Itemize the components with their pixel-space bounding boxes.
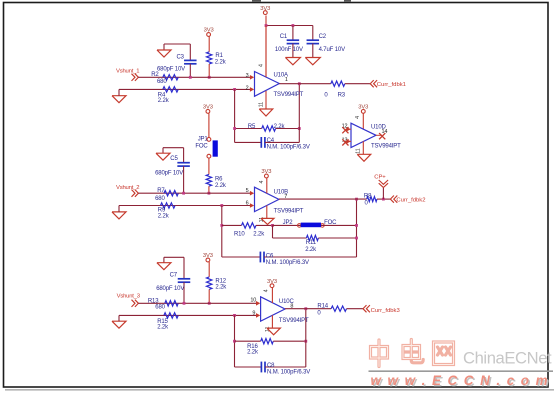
no connect pin 13 <box>342 139 351 145</box>
svg-text:Vshunt_3: Vshunt_3 <box>117 294 141 300</box>
wire pin2 net <box>119 88 251 90</box>
ground above C5 <box>156 153 170 160</box>
svg-text:R5: R5 <box>248 124 256 130</box>
power 3V3 U10C <box>263 279 277 303</box>
svg-text:3: 3 <box>246 73 249 79</box>
wire feedback left stage3 <box>234 315 236 367</box>
wire JP1 to R6 <box>208 158 210 174</box>
ground under C1 <box>285 58 300 65</box>
svg-text:R6: R6 <box>215 177 223 183</box>
svg-text:2: 2 <box>246 85 249 91</box>
net CP+ <box>374 175 388 200</box>
junction C7 / pin10 net <box>183 302 186 305</box>
resistor R5 2.2k feedback <box>235 124 300 131</box>
svg-text:Curr_fdbk1: Curr_fdbk1 <box>377 82 406 88</box>
op-amp U10D <box>342 123 402 149</box>
resistor R10 2.2k <box>222 223 273 238</box>
svg-text:R11: R11 <box>306 240 317 246</box>
ground stage2 inverting <box>112 206 126 219</box>
svg-text:2.2k: 2.2k <box>157 325 169 331</box>
svg-text:C5: C5 <box>170 156 178 162</box>
junction feedback tap pin9 <box>233 314 236 317</box>
svg-text:TSV994IPT: TSV994IPT <box>274 208 304 214</box>
ground under U10B <box>261 218 274 224</box>
svg-text:R2: R2 <box>151 72 159 78</box>
capacitor C4 N.M. 100pF <box>235 137 310 151</box>
watermark ChinaECNet <box>463 349 552 368</box>
svg-text:4: 4 <box>263 289 269 292</box>
resistor R7 680 <box>155 188 178 202</box>
wire R11 drop <box>272 225 274 238</box>
resistor R9 2.2k <box>158 203 175 220</box>
svg-text:N.M. 100pF/6.3V: N.M. 100pF/6.3V <box>267 145 310 151</box>
svg-text:Vshunt_1: Vshunt_1 <box>116 68 139 74</box>
power 3V3 top rail <box>260 6 313 77</box>
svg-text:1: 1 <box>285 77 288 83</box>
wire to port Curr_fdbk1 <box>345 83 370 85</box>
resistor R13 680 <box>148 299 178 311</box>
svg-text:0: 0 <box>324 93 328 99</box>
junction C5 / pin5 net <box>182 192 185 195</box>
power 3V3 JP1 <box>203 105 213 138</box>
ground stage3 inverting <box>112 315 126 328</box>
junction R10 branch <box>220 224 223 227</box>
svg-text:2.2k: 2.2k <box>215 285 227 291</box>
op-amp U10B <box>246 187 304 214</box>
watermark character wang <box>434 342 454 365</box>
svg-text:JP1: JP1 <box>198 137 209 143</box>
svg-text:N.M. 100pF/6.3V: N.M. 100pF/6.3V <box>266 260 309 266</box>
ground above C7 <box>157 263 171 270</box>
jumper JP2 FOC <box>273 220 357 227</box>
wire feedback left stage2 <box>221 206 223 258</box>
svg-text:0: 0 <box>317 311 321 317</box>
capacitor C2 <box>307 26 346 58</box>
junction output stage2 <box>355 198 358 201</box>
svg-text:C8: C8 <box>267 363 275 369</box>
resistor R3 0 ohm <box>324 81 345 99</box>
svg-text:4: 4 <box>355 116 361 119</box>
svg-text:FOC: FOC <box>324 220 337 226</box>
wire feedback right stage1 <box>298 84 300 143</box>
ground under U10C <box>267 328 281 335</box>
svg-text:2.2k: 2.2k <box>253 231 265 237</box>
svg-text:Curr_fdbk3: Curr_fdbk3 <box>371 308 401 314</box>
svg-text:11: 11 <box>356 148 362 154</box>
capacitor C6 N.M. 100pF <box>222 252 357 266</box>
resistor R15 2.2k <box>157 313 178 331</box>
pin 4 U10D <box>355 116 361 119</box>
svg-text:680: 680 <box>155 305 165 311</box>
resistor R11 2.2k <box>273 235 357 253</box>
svg-text:R10: R10 <box>234 231 245 237</box>
svg-text:R1: R1 <box>215 53 223 59</box>
watermark www.ECCN.com <box>371 373 551 390</box>
pin 11 U10B <box>259 205 267 222</box>
junction JP2 right <box>355 224 358 227</box>
svg-text:5: 5 <box>246 188 249 194</box>
svg-text:CP+: CP+ <box>374 175 386 181</box>
svg-text:w w w . E C C N . c o m: w w w . E C C N . c o m <box>371 373 549 388</box>
wire feedback right stage2 <box>356 199 358 257</box>
op-amp U10A <box>246 72 304 99</box>
svg-text:R14: R14 <box>317 304 328 310</box>
svg-text:680pF 10V: 680pF 10V <box>157 67 185 73</box>
svg-text:C7: C7 <box>170 272 178 278</box>
no connect pin 12 <box>342 127 351 133</box>
resistor R4 2.2k <box>158 87 178 104</box>
no connect pin 14 <box>376 133 385 139</box>
junction R1 / pin3 net <box>208 76 211 79</box>
svg-text:R8: R8 <box>364 194 372 200</box>
port Curr_fdbk1 <box>370 80 406 88</box>
svg-text:2.2k: 2.2k <box>247 350 259 356</box>
svg-text:N.M. 100pF/6.3V: N.M. 100pF/6.3V <box>267 370 310 376</box>
port Curr_fdbk3 <box>363 305 400 314</box>
svg-text:680: 680 <box>157 79 167 85</box>
svg-text:R7: R7 <box>157 188 165 194</box>
pin 4 U10A <box>258 26 266 78</box>
wire pin10 net <box>138 302 256 304</box>
port Curr_fdbk2 <box>390 196 425 204</box>
capacitor C3 680pF <box>157 44 197 77</box>
resistor R12 2.2k <box>207 277 228 303</box>
top edge cut text marks <box>252 0 351 2</box>
ground under C2 <box>305 58 320 65</box>
junction C3 / pin3 net <box>189 76 192 79</box>
svg-text:680pF 10V: 680pF 10V <box>155 170 183 176</box>
wire pin3 net <box>138 76 250 78</box>
wire pin9 net <box>119 314 257 316</box>
resistor R16 2.2k <box>235 339 306 356</box>
svg-text:2.2k: 2.2k <box>158 98 170 104</box>
wire output stage2 <box>279 198 367 200</box>
svg-text:4.7uF 10V: 4.7uF 10V <box>319 47 345 53</box>
junction R11 drop <box>271 224 274 227</box>
capacitor C5 680pF <box>155 148 190 194</box>
svg-text:JP2: JP2 <box>283 220 294 226</box>
power 3V3 R12 <box>203 253 213 277</box>
svg-text:2.2k: 2.2k <box>305 247 317 253</box>
capacitor C7 680pF <box>156 257 190 303</box>
resistor R1 2.2k <box>207 52 227 78</box>
svg-text:2.2k: 2.2k <box>215 183 227 189</box>
svg-text:FOC: FOC <box>195 143 208 149</box>
junction left rail <box>265 24 268 27</box>
svg-text:C2: C2 <box>319 34 327 40</box>
power 3V3 R1 <box>204 28 214 52</box>
svg-text:680: 680 <box>155 196 165 202</box>
pin 11 U10C <box>265 315 273 332</box>
junction R12 / pin10 net <box>208 302 211 305</box>
svg-text:TSV994IPT: TSV994IPT <box>371 143 401 149</box>
port Vshunt_3 <box>117 294 141 307</box>
svg-text:R3: R3 <box>338 93 346 99</box>
junction output stage1 <box>298 82 301 85</box>
pin 11 U10A <box>259 91 266 109</box>
watermark divider line <box>369 370 554 372</box>
svg-text:2.2k: 2.2k <box>215 59 227 65</box>
svg-text:ChinaECNet: ChinaECNet <box>463 349 552 368</box>
junction R6 / pin5 net <box>208 192 211 195</box>
wire pin6 net <box>119 205 251 207</box>
ground under U10D <box>357 154 371 161</box>
svg-text:C3: C3 <box>177 55 185 61</box>
junction CP+ tap <box>382 198 385 201</box>
resistor R2 680 <box>151 72 178 85</box>
watermark character zhong <box>371 340 388 367</box>
jumper JP1 FOC <box>195 137 217 158</box>
pin 11 U10D <box>356 141 364 154</box>
wire to port Curr_fdbk3 <box>347 308 364 310</box>
ground stage1 inverting <box>112 89 126 102</box>
op-amp U10C <box>250 297 309 324</box>
capacitor C1 <box>275 26 303 58</box>
capacitor C8 N.M. 100pF <box>235 362 311 376</box>
svg-text:4: 4 <box>259 180 265 183</box>
power 3V3 U10D <box>358 105 368 129</box>
resistor R6 2.2k <box>206 174 227 193</box>
junction feedback tap pin6 <box>220 204 223 207</box>
svg-text:6: 6 <box>246 200 249 206</box>
ground under U10A <box>259 109 273 116</box>
watermark character dian <box>403 340 423 363</box>
ground above C3 <box>157 50 171 57</box>
svg-text:680pF 10V: 680pF 10V <box>156 286 184 292</box>
port Vshunt_2 <box>116 185 139 197</box>
svg-text:TSV994IPT: TSV994IPT <box>274 92 304 98</box>
svg-text:11: 11 <box>259 102 265 108</box>
svg-text:C1: C1 <box>280 34 288 40</box>
sheet shadow line bottom <box>5 389 554 391</box>
port Vshunt_1 <box>116 68 139 81</box>
svg-text:2.2k: 2.2k <box>158 213 170 219</box>
svg-text:C4: C4 <box>267 138 275 144</box>
svg-text:2.2k: 2.2k <box>274 124 286 130</box>
svg-text:0: 0 <box>365 200 369 206</box>
wire output stage3 <box>285 308 331 310</box>
junction feedback tap pin2 <box>233 88 236 91</box>
svg-text:10: 10 <box>250 298 256 304</box>
resistor R14 0 ohm <box>317 304 346 317</box>
svg-text:Curr_fdbk2: Curr_fdbk2 <box>396 198 425 204</box>
junction R11 right <box>355 237 358 240</box>
junction R16 right <box>304 340 307 343</box>
power 3V3 U10B <box>259 169 272 193</box>
svg-text:100nF 10V: 100nF 10V <box>275 47 303 53</box>
wire output stage1 <box>279 83 331 85</box>
wire feedback right stage3 <box>305 309 307 367</box>
junction R16 left <box>233 340 236 343</box>
wire feedback left stage1 <box>234 89 236 142</box>
junction output stage3 <box>304 307 307 310</box>
resistor R8 0 ohm <box>364 194 377 207</box>
junction R5 right <box>298 127 301 130</box>
wire to port Curr_fdbk2 <box>377 198 390 200</box>
junction C1 rail <box>292 24 295 27</box>
junction R5 left <box>233 127 236 130</box>
svg-text:9: 9 <box>252 311 255 317</box>
svg-text:C6: C6 <box>266 254 274 260</box>
wire pin5 net <box>138 192 250 194</box>
svg-text:4: 4 <box>258 64 264 67</box>
svg-text:TSV994IPT: TSV994IPT <box>279 318 309 324</box>
